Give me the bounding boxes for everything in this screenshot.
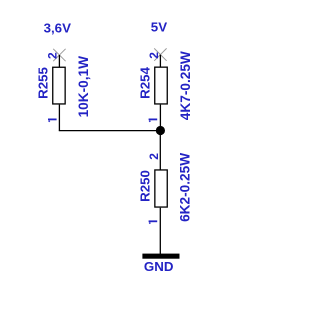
svg-text:5V: 5V bbox=[151, 20, 167, 35]
svg-text:2: 2 bbox=[147, 153, 161, 160]
wire R255 pin 1 down bbox=[58, 105, 60, 131]
pin number 1 of R254 bbox=[149, 119, 158, 122]
wire junction down to R250 bbox=[159, 131, 161, 170]
no-connect cross at R254 pin 2 bbox=[154, 48, 166, 60]
pin number 1 of R250 bbox=[149, 220, 158, 223]
wire R254 pin 1 down to junction bbox=[159, 105, 161, 131]
resistor R254 body bbox=[155, 67, 168, 104]
wire R250 pin 1 down to ground bbox=[159, 208, 161, 254]
wire R254 pin 2 bbox=[159, 55, 161, 67]
ground bar bbox=[142, 254, 179, 259]
svg-text:6K2-0.25W: 6K2-0.25W bbox=[177, 153, 192, 222]
resistor R250 body bbox=[155, 170, 167, 207]
svg-text:GND: GND bbox=[144, 259, 174, 274]
resistor R255 body bbox=[53, 67, 65, 104]
svg-text:10K-0,1W: 10K-0,1W bbox=[76, 56, 91, 118]
svg-text:3,6V: 3,6V bbox=[44, 20, 71, 35]
svg-text:R255: R255 bbox=[35, 67, 50, 99]
svg-text:4K7-0.25W: 4K7-0.25W bbox=[178, 51, 193, 120]
svg-text:R250: R250 bbox=[137, 170, 152, 202]
wire R255 pin 2 bbox=[58, 55, 60, 67]
svg-text:2: 2 bbox=[46, 52, 60, 59]
wire horizontal to junction bbox=[59, 130, 161, 132]
svg-text:R254: R254 bbox=[137, 67, 152, 99]
svg-text:2: 2 bbox=[147, 52, 161, 59]
no-connect cross at R255 pin 2 bbox=[53, 49, 65, 61]
pin number 1 of R255 bbox=[48, 119, 57, 122]
junction dot bbox=[156, 126, 165, 135]
